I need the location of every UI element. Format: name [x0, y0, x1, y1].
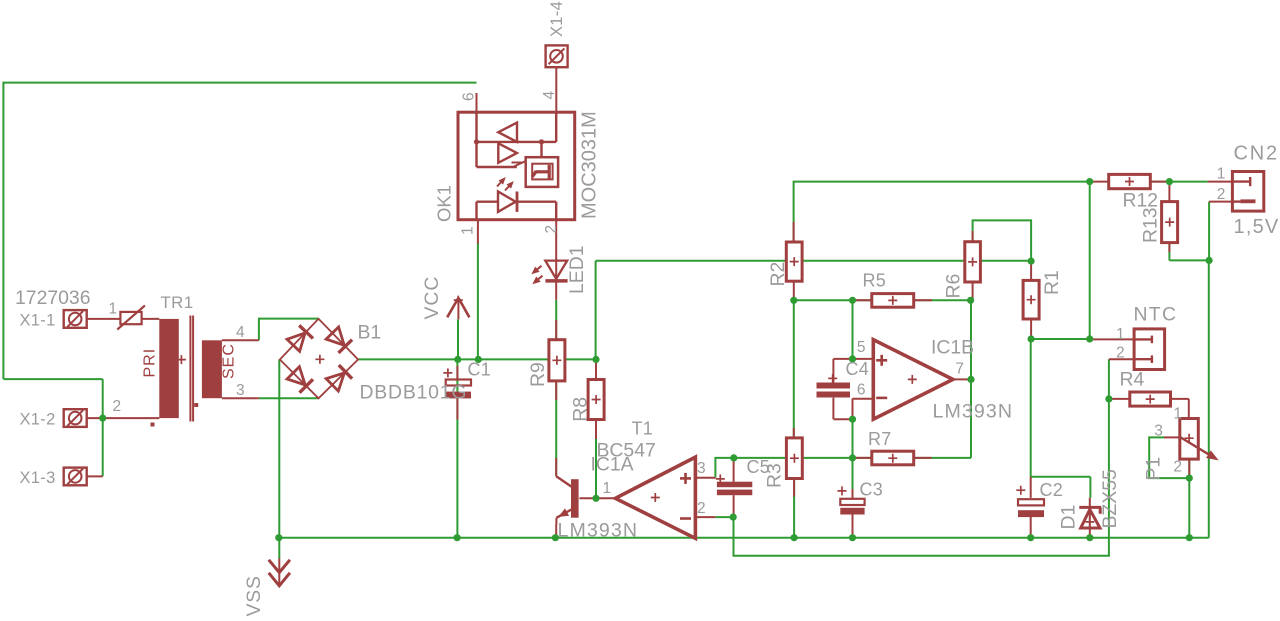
- wire VCC rail y=359: [358, 358, 596, 360]
- pin wire R13 bottom pin: [1168, 243, 1170, 252]
- svg-text:1: 1: [1217, 166, 1227, 183]
- pin wire TR1 pin3: [222, 397, 259, 399]
- resistor R12: [1109, 174, 1151, 188]
- pin wire R8 bottom pin: [595, 419, 597, 439]
- pin wire R7 right pin: [914, 457, 932, 459]
- transistor T1 BC547: [571, 479, 579, 518]
- wire R2 bottom to R3 to VSS: [793, 300, 795, 438]
- pin wire OK1 pin1 stub: [477, 220, 479, 244]
- transformer TR1: [159, 319, 179, 418]
- svg-text:1,5V: 1,5V: [1234, 216, 1280, 238]
- svg-text:R7: R7: [868, 429, 891, 449]
- capacitor C4: [817, 383, 851, 389]
- pin wire C1 top pin: [456, 366, 458, 380]
- wire P1 pin2 to VSS and wiper tie: [1188, 459, 1190, 538]
- potentiometer P1: [1180, 419, 1199, 460]
- svg-text:2: 2: [1217, 186, 1227, 203]
- svg-text:IC1A: IC1A: [591, 454, 634, 476]
- pin wire R2 top pin: [793, 222, 795, 242]
- svg-text:6: 6: [461, 91, 478, 101]
- pin wire CN2 pin1: [1208, 181, 1233, 183]
- pin wire IC1A pin2: [695, 516, 715, 518]
- svg-text:1: 1: [1116, 326, 1126, 343]
- junction at 970.6,300.3: [967, 297, 974, 304]
- svg-text:3: 3: [697, 460, 707, 477]
- pin wire C2 top pin: [1030, 477, 1032, 498]
- pin wire P1 pin2: [1188, 459, 1190, 478]
- junction at 278.8,537.7: [275, 534, 282, 541]
- junction at 596,498.3: [592, 495, 599, 502]
- svg-text:R1: R1: [1041, 270, 1063, 295]
- pin wire R12 left pin: [1090, 181, 1109, 183]
- terminal X1-4: [546, 45, 568, 67]
- resistor R6: [965, 242, 981, 282]
- pin wire R5 left pin: [853, 299, 872, 301]
- LED LED1: [545, 261, 567, 279]
- svg-text:IC1B: IC1B: [931, 337, 974, 359]
- junction at 971,379.4: [967, 376, 974, 383]
- pin wire R12 right pin: [1150, 181, 1166, 183]
- svg-text:3: 3: [1154, 423, 1164, 440]
- svg-text:LM393N: LM393N: [933, 401, 1014, 423]
- svg-text:2: 2: [697, 500, 707, 517]
- svg-text:VCC: VCC: [421, 276, 443, 320]
- svg-text:X1-4: X1-4: [548, 1, 566, 37]
- capacitor C1: [446, 380, 471, 386]
- svg-text:BZX55: BZX55: [1099, 469, 1121, 528]
- junction at 852.5,457.9: [849, 454, 856, 461]
- zener diode D1 BZX55: [1079, 506, 1101, 509]
- svg-text:LM393N: LM393N: [558, 519, 639, 541]
- power VCC arrow: [447, 298, 458, 317]
- svg-text:MOC3031M: MOC3031M: [579, 111, 601, 219]
- pin wire R6 top pin: [972, 231, 974, 242]
- svg-text:C2: C2: [1040, 480, 1063, 500]
- svg-text:VSS: VSS: [243, 575, 265, 616]
- junction at 1189.3,537.7: [1186, 534, 1193, 541]
- capacitor C2: [1018, 499, 1044, 505]
- svg-text:R5: R5: [863, 271, 886, 291]
- wire TR1 pin4 to B1 top: [259, 319, 319, 341]
- pin wire R5 right pin: [914, 299, 932, 301]
- svg-text:1: 1: [603, 480, 613, 497]
- svg-text:X1-3: X1-3: [20, 469, 56, 487]
- junction at 1031.1,339: [1028, 335, 1035, 342]
- wire R1 bottom to NTC pin1: [1031, 338, 1090, 340]
- wire IC1A pin2 / C5 bottom to NTC pin2 (bottom sense line): [715, 516, 733, 518]
- junction at 1089.8,537.7: [1086, 534, 1093, 541]
- svg-text:2: 2: [1173, 459, 1183, 476]
- wire R6 top loop to R1 top: [973, 220, 1032, 261]
- svg-text:1: 1: [109, 301, 119, 318]
- pin wire IC1B pin6: [853, 398, 874, 400]
- junction at 793.8,300.3: [790, 297, 797, 304]
- pin wire C1 bottom pin: [456, 398, 458, 419]
- pin wire C2 bottom pin: [1030, 517, 1032, 538]
- svg-text:C3: C3: [860, 480, 883, 500]
- pin wire R4 right pin: [1171, 398, 1189, 400]
- wire R13 bottom to CN2 pin2 net: [1168, 243, 1170, 261]
- wire C1 bottom to VSS: [456, 359, 458, 537]
- pin wire P1 pin3 stub: [1164, 436, 1180, 438]
- svg-text:DBDB101G: DBDB101G: [360, 382, 468, 404]
- junction at 478.3,359.4: [475, 356, 482, 363]
- optocoupler OK1 MOC3031M: [458, 112, 575, 220]
- terminal X1-3: [64, 468, 87, 486]
- pin wire R9 top pin: [555, 320, 557, 340]
- svg-text:OK1: OK1: [434, 185, 455, 222]
- svg-text:3: 3: [236, 382, 246, 399]
- junction at 555.4,537.7: [552, 534, 559, 541]
- svg-text:P1: P1: [1142, 457, 1164, 481]
- svg-text:D1: D1: [1057, 505, 1079, 530]
- svg-text:CN2: CN2: [1234, 143, 1279, 165]
- junction at 1108.9,398.9: [1105, 395, 1112, 402]
- wire VCC arrow drop: [457, 319, 459, 360]
- svg-text:X1-1: X1-1: [20, 311, 56, 329]
- junction at 852.5,300.3: [849, 297, 856, 304]
- svg-text:R4: R4: [1120, 369, 1145, 391]
- svg-text:6: 6: [857, 382, 867, 399]
- resistor R7: [872, 451, 914, 465]
- resistor R9: [549, 340, 565, 381]
- junction at 1089.7,181.6: [1086, 178, 1093, 185]
- wire IC1B pin5 riser: [852, 300, 854, 359]
- capacitor C5: [717, 482, 752, 488]
- pin wire R9 bottom pin: [555, 381, 557, 400]
- svg-text:SEC: SEC: [220, 343, 237, 379]
- junction at 852.5,358.9: [849, 355, 856, 362]
- wire net X1-2/X1-3 to OK1 pin6 (top-left loop): [3, 82, 476, 84]
- wire VSS rail: [279, 537, 1209, 539]
- resistor R1: [1023, 280, 1039, 319]
- op-amp IC1A LM393N: [615, 457, 695, 538]
- resistor R5: [872, 294, 914, 308]
- svg-text:R3: R3: [764, 463, 786, 488]
- junction at 852.5,419.2: [849, 416, 856, 423]
- pin wire R4 left pin: [1109, 398, 1130, 400]
- wire OK1 pin1 drop to VCC rail: [477, 243, 479, 360]
- pin wire R1 bottom pin: [1030, 319, 1032, 339]
- svg-text:R13: R13: [1139, 207, 1161, 243]
- pin wire C5 bottom pin: [733, 495, 735, 517]
- pin wire T1 emitter drop: [555, 525, 557, 538]
- svg-text:1: 1: [459, 225, 476, 235]
- svg-text:C1: C1: [468, 360, 491, 380]
- resistor R3: [786, 438, 802, 479]
- junction at 457.1,537.7: [454, 534, 461, 541]
- wire R1 bottom to C2/D1: [1030, 339, 1032, 477]
- pin wire P1 pin1: [1188, 399, 1190, 419]
- junction at 1089.7,339: [1086, 335, 1093, 342]
- power VSS arrow: [278, 538, 280, 559]
- junction at 733.8,457.9: [730, 454, 737, 461]
- wire IC1B pin6 drop to R7/C3: [852, 399, 854, 458]
- pin wire C3 top pin: [852, 489, 854, 499]
- svg-text:NTC: NTC: [1134, 304, 1178, 326]
- svg-text:7: 7: [955, 361, 965, 378]
- pin wire R6 bottom pin: [972, 282, 974, 300]
- junction at 596,359.4: [592, 356, 599, 363]
- svg-text:R9: R9: [527, 362, 549, 387]
- wire R8 to T1 base / IC1A output: [595, 359, 597, 498]
- pin wire T1 collector pin: [555, 458, 557, 476]
- wire LED1 to R9: [555, 300, 557, 340]
- svg-text:1727036: 1727036: [15, 287, 91, 309]
- resistor R8: [588, 380, 604, 420]
- svg-text:LED1: LED1: [566, 245, 588, 294]
- terminal X1-1: [64, 310, 87, 328]
- pin wire R8 top pin: [595, 361, 597, 380]
- pin wire CN2 pin2: [1209, 201, 1232, 203]
- pin wire IC1B pin5: [853, 358, 874, 360]
- terminal X1-2: [64, 409, 87, 427]
- pin wire C4 top wire: [833, 358, 852, 360]
- svg-text:2: 2: [1116, 345, 1126, 362]
- bridge rectifier B1: [280, 319, 358, 399]
- svg-text:2: 2: [543, 224, 560, 234]
- pin wire X1-2 to TR1: [87, 417, 160, 419]
- fuse F1 (1727036): [120, 312, 141, 324]
- wire B1 left vertex to VSS rail: [278, 360, 280, 538]
- svg-text:4: 4: [541, 90, 558, 100]
- pin wire IC1B pin6 drop: [852, 399, 854, 420]
- svg-text:C4: C4: [846, 359, 869, 379]
- pin wire R1 top pin: [1030, 261, 1032, 280]
- wire R7 right to IC1B pin7: [914, 457, 971, 459]
- pin wire R3 bottom pin: [793, 479, 795, 497]
- pin wire R7 left pin: [853, 457, 872, 459]
- pin wire C4 bottom wire: [832, 398, 834, 420]
- svg-text:1: 1: [1173, 406, 1183, 423]
- pin wire X1-4 to OK1 pin4: [555, 67, 557, 112]
- svg-text:TR1: TR1: [161, 293, 194, 312]
- wire IC1A pin3 net to C5/R7: [715, 458, 871, 478]
- pin wire NTC pin2: [1109, 358, 1134, 360]
- pin wire T1 base to IC1A apex: [579, 497, 615, 499]
- op-amp IC1B LM393N: [873, 340, 953, 420]
- wire y=300 line R2/R5/R6: [794, 299, 971, 301]
- svg-text:PRI: PRI: [141, 348, 158, 378]
- pin wire IC1A pin3: [695, 477, 715, 479]
- wire R2 top riser / net y=182 to CN2: [794, 182, 1090, 242]
- svg-text:2: 2: [113, 398, 123, 415]
- pin wire OK1 pin6: [476, 93, 478, 112]
- svg-text:R8: R8: [570, 397, 592, 422]
- thermistor NTC connector: [1134, 329, 1165, 370]
- pin wire OK1 pin2 through LED1: [555, 218, 557, 299]
- connector CN2 (1,5V battery): [1232, 172, 1263, 212]
- junction at 1030.7,537.7: [1027, 534, 1034, 541]
- pin wire R2 bottom pin: [793, 281, 795, 300]
- resistor R2: [786, 242, 802, 281]
- svg-text:X1-2: X1-2: [20, 411, 56, 429]
- junction at 1169.4,181.6: [1166, 178, 1173, 185]
- junction at 1031.1,261.1: [1028, 258, 1035, 265]
- junction at 102.7,418.1: [99, 415, 106, 422]
- pin wire C5 top pin: [733, 458, 735, 482]
- pin wire R13 top pin: [1168, 182, 1170, 202]
- pin wire IC1B pin7: [953, 378, 971, 380]
- junction at 457.8,359.4: [454, 356, 461, 363]
- svg-text:R6: R6: [943, 274, 965, 299]
- svg-text:T1: T1: [632, 419, 653, 439]
- wire R9 bottom to T1 collector: [555, 381, 557, 476]
- capacitor C3: [840, 499, 864, 505]
- resistor R4: [1130, 392, 1171, 406]
- junction at 1209.1,260.4: [1206, 257, 1213, 264]
- pin wire X1-3 pin: [87, 475, 103, 477]
- svg-text:B1: B1: [358, 322, 382, 344]
- pin wire R3 top pin: [793, 428, 795, 438]
- pin wire C3 bottom pin: [852, 515, 854, 538]
- svg-text:5: 5: [857, 339, 867, 356]
- junction at 852.5,537.7: [849, 534, 856, 541]
- wire VCC riser to R1/R6 line y=261: [596, 260, 1032, 262]
- junction at 794.1,537.7: [791, 534, 798, 541]
- pin wire D1 pin line: [1089, 498, 1091, 538]
- svg-text:4: 4: [236, 324, 246, 341]
- resistor R13: [1162, 202, 1178, 243]
- junction at 733.2,517.1: [730, 514, 737, 521]
- svg-text:R2: R2: [767, 262, 789, 287]
- pin wire TR1 pin4: [222, 339, 259, 341]
- wire TR1 pin3 to B1 bottom: [259, 397, 319, 399]
- junction at 1189.3,478.1: [1186, 475, 1193, 482]
- pin wire X1-1 to fuse: [87, 318, 121, 320]
- pin wire NTC pin1: [1090, 338, 1134, 340]
- pin wire fuse to TR1: [142, 318, 160, 320]
